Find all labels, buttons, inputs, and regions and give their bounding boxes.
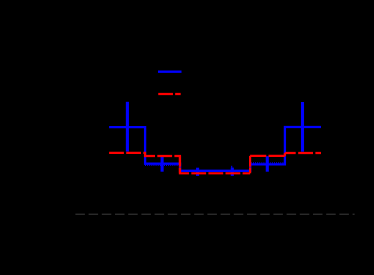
red dashed step bin6 level — [285, 152, 321, 154]
blue error bar bin2 — [161, 156, 164, 171]
red step edge2 vertical overlay — [179, 156, 181, 173]
red dashed step bin5 level — [250, 155, 285, 157]
blue dotted series segment bin2 — [145, 164, 180, 166]
blue error bar bin5 — [266, 156, 269, 172]
red dashed step series left part (drawn on top) — [109, 153, 250, 173]
blue error bar bin6 — [301, 102, 304, 152]
blue dotted series segment bin5 — [251, 162, 285, 164]
legend blue solid line sample — [158, 71, 182, 73]
blue error bar bin1 — [126, 102, 129, 152]
blue solid step series — [109, 127, 321, 171]
blue error bar bin3 — [196, 168, 199, 176]
blue error bar bin4 — [231, 168, 234, 176]
red dashed step edge4 vertical — [249, 156, 251, 173]
zero baseline (gray dashed axhline) — [75, 213, 354, 215]
legend red dashed line sample — [158, 93, 180, 95]
red dashed step edge5 vertical — [284, 153, 286, 156]
blue error bar bin4 thin stub — [231, 166, 233, 168]
